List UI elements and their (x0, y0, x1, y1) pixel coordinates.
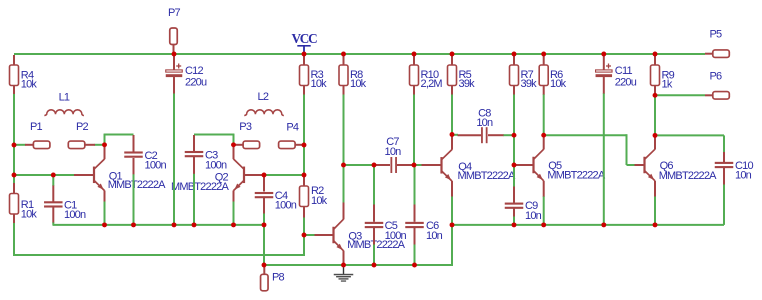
junction at (603.8,54) (601, 52, 606, 57)
capacitor C7 (385, 136, 402, 173)
pin Q6 emitter (654, 181, 656, 197)
junction at (133.5,224.9) (131, 222, 136, 227)
junction at (264,175) (262, 173, 267, 178)
pin C11 bottom (603, 77, 605, 94)
wire R10 bottom riser (413, 94, 415, 165)
pin Q4 collector (451, 135, 453, 150)
pin C8 left (458, 134, 482, 136)
svg-text:MMBT2222A: MMBT2222A (108, 179, 166, 191)
junction at (452,224.9) (450, 222, 455, 227)
svg-text:100n: 100n (205, 159, 227, 171)
pin Q1 base (74, 174, 94, 176)
pin Q4 base (422, 164, 442, 166)
pin R7 bottom (513, 85, 515, 95)
wire P2 to Q1 collector node (95, 144, 105, 146)
wire C5 top riser (373, 165, 375, 205)
junction at (104.5,144.8) (102, 142, 107, 147)
junction at (104.5,224.9) (102, 222, 107, 227)
pin C4 bottom (263, 198, 265, 214)
svg-text:220u: 220u (615, 77, 637, 89)
pin Q1 collector (104, 145, 106, 159)
junction at (304,235) (302, 233, 307, 238)
junction at (53.3,175) (51, 173, 56, 178)
svg-text:220u: 220u (185, 77, 207, 89)
wire C11 bottom riser (603, 93, 605, 225)
pin P4 (295, 144, 304, 146)
pin P2 (85, 144, 95, 146)
wire C4 bottom stub (263, 213, 265, 225)
ground symbol (334, 265, 354, 282)
power symbol VCC (291, 31, 317, 54)
junction at (343.5,265) (341, 263, 346, 268)
svg-text:P4: P4 (286, 121, 299, 133)
svg-text:10k: 10k (550, 78, 567, 90)
inductor L2 (244, 91, 283, 116)
svg-text:10k: 10k (21, 79, 38, 91)
pin C10 top (723, 152, 725, 162)
capacitor C12 220u (polarized) (166, 64, 207, 89)
capacitor C2 (124, 150, 166, 172)
junction at (343.5,165) (341, 163, 346, 168)
wire Q4 collector to C8 (452, 134, 458, 136)
pin Q2 collector (233, 145, 235, 159)
svg-text:10k: 10k (311, 195, 328, 207)
pin R5 top (451, 54, 453, 66)
pin C1 top (52, 186, 54, 202)
svg-text:C11: C11 (615, 65, 633, 77)
pin P8 (263, 265, 265, 274)
wire Q3 base green segment (304, 234, 315, 236)
wire Q6 collector to C10 (655, 134, 724, 136)
svg-text:10k: 10k (350, 78, 367, 90)
pin Q2 base (244, 174, 264, 176)
pin C12 bottom (173, 77, 175, 94)
capacitor C3 (185, 150, 227, 172)
pin R5 bottom (451, 85, 453, 95)
junction at (374,165) (372, 163, 377, 168)
pin C7 right (397, 164, 414, 166)
junction at (452,134.5) (450, 132, 455, 137)
transistor Q6 (NPN MMBT2222A) (643, 149, 717, 182)
transistor Q2 (NPN MMBT2222A) (171, 159, 245, 193)
pin C2 top (133, 135, 135, 152)
wire Q1 collector to C2 riser (104, 134, 106, 145)
wire Q5 base node to C9 (513, 165, 515, 187)
junction at (514,135.2) (512, 133, 517, 138)
svg-text:C12: C12 (185, 65, 203, 77)
resistor R10 (410, 65, 443, 90)
wire C6 top riser (414, 165, 416, 205)
wire C3 top link (194, 134, 234, 136)
wire C6 bottom stub (414, 244, 416, 265)
pin R7 top (513, 54, 515, 66)
svg-text:10n: 10n (426, 230, 443, 242)
pin C12 top (173, 54, 175, 70)
pin C1 bottom (52, 207, 54, 223)
capacitor C5 (365, 220, 407, 242)
wire C7 right to Q4 base (413, 164, 422, 166)
svg-text:2,2M: 2,2M (421, 78, 443, 90)
capacitor C8 (476, 108, 493, 144)
junction at (374,265) (372, 263, 377, 268)
pin R3 bottom (303, 85, 305, 95)
pin Q3 base (314, 234, 334, 236)
svg-text:1k: 1k (662, 79, 673, 91)
junction at (304,145) (302, 143, 307, 148)
wire Q1 base net (14, 174, 75, 176)
svg-text:10n: 10n (735, 170, 752, 182)
pin Q4 emitter (451, 181, 453, 197)
wire ground bus right (452, 224, 724, 226)
wire Q6 base stub (627, 164, 636, 166)
pin R8 bottom (343, 85, 345, 95)
wire Q5 collector to Q6 base run (544, 134, 627, 136)
svg-text:L2: L2 (258, 91, 269, 103)
pin Q5 base (514, 164, 533, 166)
junction at (264,265) (262, 263, 267, 268)
junction at (174,54) (172, 52, 177, 57)
pin Q3 collector (343, 203, 345, 220)
junction at (514,224.9) (512, 222, 517, 227)
svg-text:P2: P2 (76, 121, 89, 133)
svg-text:P5: P5 (710, 29, 723, 41)
svg-text:10n: 10n (476, 117, 493, 129)
capacitor C11 220u (polarized) (596, 64, 637, 89)
wire ground bus (264, 264, 453, 266)
junction at (655,54) (653, 52, 658, 57)
pin R9 top (654, 54, 656, 66)
wire R1 bottom to bias bus (13, 222, 15, 255)
svg-text:P7: P7 (168, 7, 181, 19)
svg-text:10k: 10k (311, 78, 328, 90)
pin Q2 emitter (233, 191, 235, 202)
junction at (194,224.9) (192, 222, 197, 227)
pin C6 top (414, 205, 416, 222)
connector connector P1 (30, 121, 50, 148)
svg-text:MMBT2222A: MMBT2222A (458, 170, 516, 182)
pin C3 bottom (193, 157, 195, 174)
wire AC ground bus left (53, 224, 265, 226)
pin C9 top (513, 187, 515, 203)
wire C10 bottom riser (723, 184, 725, 225)
pin R1 bottom (13, 214, 15, 223)
svg-text:MMBT2222A: MMBT2222A (547, 170, 605, 182)
wire C1 top stub (52, 175, 54, 186)
wire R6 bottom to Q5 collector (543, 94, 545, 135)
pin C4 top (263, 175, 265, 192)
wire R5 bottom to Q4 collector (451, 94, 453, 135)
junction at (233.5,224.9) (231, 222, 236, 227)
wire Q2 collector riser (233, 134, 235, 145)
wire C12 bottom riser (173, 93, 175, 225)
connector connector P2 (68, 121, 88, 148)
junction at (514,54) (512, 52, 517, 57)
resistor R6 (539, 65, 566, 90)
junction at (655,135.4) (653, 133, 658, 138)
pin R4 top (13, 55, 15, 66)
pin R6 bottom (543, 85, 545, 95)
wire R3 bottom to P4 node (303, 94, 305, 145)
pin P3 (234, 144, 244, 146)
transistor Q1 (NPN MMBT2222A) (93, 159, 166, 191)
capacitor C4 (255, 190, 297, 212)
wire Q2 emitter lower (233, 201, 235, 225)
pin R4 bottom (13, 85, 15, 94)
connector connector P8 (261, 272, 285, 291)
junction at (304,175) (302, 173, 307, 178)
junction at (514,165) (512, 163, 517, 168)
junction at (414.5,265) (412, 263, 417, 268)
junction at (414,165) (412, 163, 417, 168)
junction at (414,54) (412, 52, 417, 57)
pin Q3 emitter (343, 251, 345, 265)
pin R9 bottom (654, 85, 656, 95)
pin Q5 collector (543, 135, 545, 149)
transistor Q3 (NPN MMBT2222A) (332, 219, 405, 251)
pin Q6 collector (654, 135, 656, 149)
transistor Q4 (NPN MMBT2222A) (440, 150, 516, 183)
connector connector P7 (168, 7, 181, 44)
wire AC bus drop to P8 node (263, 225, 265, 265)
resistor R3 (300, 65, 328, 90)
wire Q6 emitter lower (654, 196, 656, 225)
pin Q6 base (635, 164, 645, 166)
pin C10 bottom (723, 168, 725, 185)
wire P6 link (655, 94, 705, 96)
pin R3 top (303, 54, 305, 66)
pin C5 bottom (373, 228, 375, 245)
inductor L1 (44, 92, 84, 116)
wire Q6 base drop (626, 134, 628, 165)
pin R6 top (543, 54, 545, 66)
junction at (14,145) (12, 143, 17, 148)
svg-text:100n: 100n (145, 160, 167, 172)
resistor R5 (448, 65, 476, 90)
junction at (543.7,135.2) (541, 133, 546, 138)
pin R10 top (413, 54, 415, 66)
pin Q5 emitter (543, 181, 545, 197)
pin P5 (705, 53, 713, 55)
junction at (264,224.9) (262, 222, 267, 227)
pin C7 left (375, 164, 391, 166)
wire bias bus riser (303, 235, 305, 255)
pin R10 bottom (413, 85, 415, 95)
capacitor C1 (44, 200, 86, 222)
svg-text:MMBT2222A: MMBT2222A (347, 239, 405, 251)
capacitor C10 (715, 160, 754, 182)
pin P6 (705, 94, 713, 96)
pin R1 top (13, 183, 15, 194)
pin R2 top (303, 175, 305, 186)
connector connector P6 (710, 71, 730, 99)
pin R2 bottom (303, 206, 305, 218)
wire bias bus bottom (13, 254, 305, 256)
svg-text:P1: P1 (30, 121, 43, 133)
junction at (343.5,54) (341, 52, 346, 57)
svg-text:10n: 10n (525, 210, 542, 222)
junction at (174,224.9) (172, 222, 177, 227)
svg-text:10n: 10n (385, 146, 402, 158)
wire Q1 emitter lower (104, 201, 106, 225)
wire Q5 emitter lower (543, 196, 545, 225)
wire C8 node to Q5 base node (513, 135, 515, 165)
resistor R1 (10, 194, 38, 221)
junction at (452,54) (450, 52, 455, 57)
wire ground bus riser (451, 225, 453, 265)
connector connector P4 (279, 121, 299, 148)
svg-text:P8: P8 (272, 272, 285, 284)
resistor R7 (510, 65, 538, 90)
svg-text:39k: 39k (521, 78, 538, 90)
junction at (543.7,54) (541, 52, 546, 57)
svg-text:MMBT2222A: MMBT2222A (659, 170, 717, 182)
junction at (304,54) (302, 52, 307, 57)
svg-text:100n: 100n (275, 200, 297, 212)
pin C6 bottom (414, 228, 416, 245)
capacitor C6 (405, 220, 442, 242)
pin R8 top (343, 54, 345, 66)
svg-text:MMBT2222A: MMBT2222A (171, 181, 229, 193)
wire C5 bottom stub (373, 244, 375, 265)
resistor R2 (300, 185, 328, 207)
junction at (655,95.3) (653, 93, 658, 98)
wire Q4 emitter lower (451, 196, 453, 225)
junction at (603.8,224.9) (601, 222, 606, 227)
junction at (543.7,224.9) (541, 222, 546, 227)
svg-text:P6: P6 (710, 71, 723, 83)
pin P1 (25, 144, 34, 146)
wire left rail upper (R4 to P1/R1) (13, 93, 15, 183)
wire R2 bottom stub (303, 217, 305, 235)
transistor Q5 (NPN MMBT2222A) (532, 149, 605, 181)
pin C2 bottom (133, 158, 135, 174)
wire P4 node to R2 top (303, 145, 305, 175)
wire C9 bottom stub (513, 216, 515, 225)
pin P7 (173, 44, 175, 54)
pin C9 bottom (513, 209, 515, 217)
junction at (233.5,144.8) (231, 142, 236, 147)
capacitor C9 (505, 200, 542, 222)
junction at (14,175) (12, 173, 17, 178)
svg-text:100n: 100n (64, 209, 86, 221)
wire P1 stub (14, 144, 26, 146)
pin C8 right (488, 134, 504, 136)
svg-text:L1: L1 (59, 92, 70, 104)
connector connector P5 (710, 29, 730, 58)
svg-text:VCC: VCC (291, 31, 317, 46)
wire Q2 base to R2 node (264, 174, 304, 176)
wire C2 top link (104, 134, 134, 136)
svg-text:10k: 10k (21, 208, 38, 220)
resistor R4 (10, 65, 38, 91)
wire R9 bottom to Q6 collector (654, 95, 656, 135)
wire C10 top riser (723, 135, 725, 152)
resistor R8 (339, 65, 367, 90)
wire C2 bottom riser (133, 174, 135, 225)
connector connector P3 (239, 121, 259, 149)
wire C3 bottom riser (193, 174, 195, 225)
wire R8 bottom to Q3 collector (343, 94, 345, 203)
wire C1 bottom elbow (52, 222, 54, 225)
resistor R9 (651, 65, 675, 91)
wire C8 right link (503, 134, 514, 136)
wire Q3 collector net to C7 (344, 164, 375, 166)
pin Q1 emitter (104, 191, 106, 202)
svg-text:39k: 39k (459, 78, 476, 90)
junction at (655,224.9) (653, 222, 658, 227)
pin C5 top (373, 205, 375, 222)
pin C11 top (603, 54, 605, 70)
pin C3 top (193, 135, 195, 151)
svg-text:P3: P3 (239, 121, 252, 133)
wire VCC top rail (14, 53, 705, 55)
wire R7 bottom to C8 node (513, 94, 515, 135)
